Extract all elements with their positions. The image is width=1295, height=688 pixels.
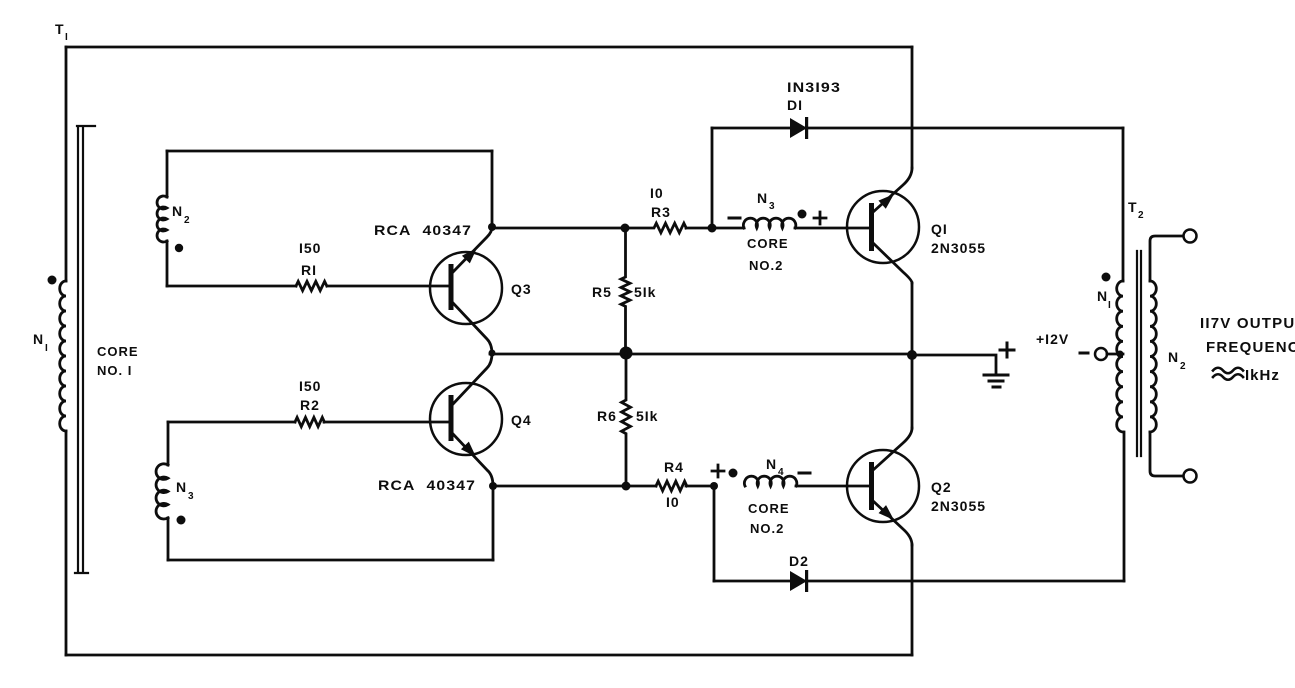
label R4 10 — [664, 459, 684, 510]
label Q3 — [511, 281, 532, 297]
svg-text:CORE: CORE — [748, 501, 790, 516]
resistor R3 — [625, 223, 712, 233]
svg-text:QI: QI — [931, 221, 948, 237]
wire Q2 emitter vertical to bottom rail — [911, 545, 914, 655]
junction node R3 right / D1 — [708, 224, 717, 233]
svg-text:CORE: CORE — [747, 236, 789, 251]
wire N2 loop left vertical — [166, 151, 169, 197]
svg-text:N: N — [176, 479, 187, 495]
label D2 — [789, 553, 809, 569]
svg-text:5Ik: 5Ik — [634, 284, 656, 300]
wire N3 loop bottom — [168, 559, 493, 562]
wire Q3 base line left part — [167, 285, 296, 288]
sign plus (N4 left) — [712, 465, 724, 477]
resistor R4 — [656, 481, 714, 491]
N4 polarity dot — [729, 469, 738, 478]
sign plus (ground) — [1000, 343, 1014, 357]
resistor R6 — [622, 353, 631, 486]
transformer T1 winding N1 — [60, 281, 66, 431]
wire bottom rail — [66, 654, 912, 657]
svg-text:I: I — [1108, 300, 1111, 311]
label +12V — [1036, 331, 1069, 347]
wire N3 feedback loop top (Q4 base line) — [168, 421, 295, 424]
label N3 core2 — [757, 190, 775, 212]
junction node Q4 emitter — [489, 482, 497, 490]
wire D1 branch vertical — [711, 128, 714, 228]
svg-text:Q2: Q2 — [931, 479, 952, 495]
svg-text:I: I — [65, 32, 68, 43]
svg-text:3: 3 — [769, 201, 775, 212]
svg-text:IN3I93: IN3I93 — [787, 79, 841, 95]
winding N4 core no.2 — [744, 476, 869, 486]
approx-equals waves — [1213, 368, 1243, 380]
svg-text:NO. I: NO. I — [97, 363, 132, 378]
wire D2 branch vertical — [713, 486, 716, 581]
resistor R5 — [621, 228, 630, 353]
svg-text:I: I — [45, 343, 48, 354]
svg-text:RCA 40347: RCA 40347 — [378, 477, 476, 493]
wire Q4 emitter node to R6 bottom — [493, 485, 656, 488]
svg-text:R6: R6 — [597, 408, 617, 424]
wire D2 line to T2 bottom — [714, 580, 1124, 583]
transistor Q4 — [430, 383, 502, 455]
transformer T2 winding N1 — [1117, 281, 1123, 432]
transistor Q2 — [847, 450, 919, 522]
svg-text:N: N — [757, 190, 768, 206]
wire R2 to Q4 base — [324, 421, 450, 424]
junction node Q3 emitter — [488, 223, 496, 231]
label N2 (T2) — [1168, 349, 1186, 372]
diode D2 — [790, 570, 808, 592]
svg-text:NO.2: NO.2 — [749, 258, 783, 273]
label 150 R1 — [299, 240, 321, 278]
winding N3 core no.2 — [712, 218, 869, 228]
svg-text:4: 4 — [778, 467, 784, 478]
resistor R2 — [295, 417, 324, 426]
resistor R1 — [296, 281, 327, 290]
svg-text:2: 2 — [184, 215, 190, 226]
svg-text:I50: I50 — [299, 378, 321, 394]
wire N2 loop left vertical lower — [166, 241, 169, 286]
transformer T2 core NO.2 lines — [1137, 251, 1141, 456]
winding N3 — [156, 464, 168, 519]
wire N2 feedback loop top — [167, 150, 492, 153]
label RCA 40347 (Q3) — [374, 222, 472, 238]
svg-text:CORE: CORE — [97, 344, 139, 359]
wire Q3 emitter node to R5 top — [492, 227, 625, 230]
svg-text:N: N — [172, 203, 183, 219]
transformer T2 winding N2 secondary — [1150, 281, 1156, 432]
svg-text:2N3055: 2N3055 — [931, 498, 986, 514]
wire terminal to T2 tap — [1107, 353, 1123, 356]
transformer T1 core NO.1 lines — [75, 126, 95, 573]
terminal supply — [1095, 348, 1107, 360]
wire secondary bottom lead — [1150, 432, 1183, 476]
wire Q2 collector vertical from ground node — [911, 355, 914, 428]
svg-text:FREQUENCY: FREQUENCY — [1206, 339, 1295, 356]
N3 polarity dot — [177, 516, 186, 525]
label CORE NO.2 (bottom) — [748, 501, 790, 536]
svg-text:DI: DI — [787, 97, 803, 113]
svg-text:I50: I50 — [299, 240, 321, 256]
label 1N3193 D1 — [787, 79, 841, 113]
sign minus (N3 core2 left) — [729, 217, 740, 220]
svg-text:I0: I0 — [650, 185, 664, 201]
label 10 R3 — [650, 185, 671, 220]
wire to ground — [912, 355, 996, 375]
svg-text:2N3055: 2N3055 — [931, 240, 986, 256]
svg-text:RI: RI — [301, 262, 317, 278]
label T1 — [55, 21, 68, 43]
wire N2 loop right vertical down to Q3 emitter node — [491, 151, 494, 227]
svg-text:Q3: Q3 — [511, 281, 532, 297]
label 150 R2 — [299, 378, 321, 413]
label R5 51k — [592, 284, 656, 300]
N3 core2 polarity dot — [798, 210, 807, 219]
svg-text:R4: R4 — [664, 459, 684, 475]
sign minus (N4 right) — [799, 472, 810, 475]
wire T2 primary bottom vertical — [1123, 432, 1126, 581]
label N1 (T2) — [1097, 288, 1111, 311]
label CORE NO.2 (top) — [747, 236, 789, 273]
wire N3 loop left vertical lower — [167, 518, 170, 560]
junction node R6 bottom — [622, 482, 631, 491]
transistor Q3 — [430, 252, 502, 324]
wire Q1 emitter vertical to top rail — [911, 47, 914, 168]
svg-text:N: N — [1097, 288, 1108, 304]
svg-text:T: T — [55, 21, 65, 37]
junction node R5 top — [621, 224, 630, 233]
N2 polarity dot — [175, 244, 183, 252]
svg-text:+I2V: +I2V — [1036, 331, 1069, 347]
svg-text:5Ik: 5Ik — [636, 408, 658, 424]
label N2 — [172, 203, 190, 226]
wire secondary top lead — [1150, 236, 1183, 281]
terminal output top — [1184, 230, 1197, 243]
wire center line collectors to ground — [490, 353, 912, 356]
junction node R4 right / D2 — [710, 482, 718, 490]
svg-text:T: T — [1128, 199, 1138, 215]
svg-text:2: 2 — [1180, 361, 1186, 372]
svg-text:R2: R2 — [300, 397, 320, 413]
label N1 — [33, 331, 48, 354]
label Q2 2N3055 — [931, 479, 986, 514]
wire T1 primary left vertical top section — [65, 47, 68, 281]
label output — [1200, 315, 1295, 384]
transistor Q1 — [847, 191, 919, 263]
label T2 — [1128, 199, 1144, 221]
terminal output bottom — [1184, 470, 1197, 483]
label Q4 — [511, 412, 532, 428]
junction node center big — [620, 347, 633, 360]
junction node T2 center tap — [1117, 351, 1124, 358]
junction node ground — [907, 350, 917, 360]
T1 polarity dot — [48, 276, 57, 285]
ground — [984, 375, 1008, 387]
svg-text:N: N — [33, 331, 44, 347]
label N4 — [766, 456, 784, 478]
wire N3 loop left vertical — [167, 422, 170, 465]
svg-text:2: 2 — [1138, 210, 1144, 221]
wire D1 line to T2 top — [712, 127, 1123, 130]
svg-text:II7V OUTPUT: II7V OUTPUT — [1200, 315, 1295, 332]
svg-text:R3: R3 — [651, 204, 671, 220]
wire T2 primary top vertical — [1122, 128, 1125, 281]
svg-text:Q4: Q4 — [511, 412, 532, 428]
sign minus (supply) — [1080, 352, 1088, 355]
sign plus (N3 core2 right) — [814, 212, 826, 224]
svg-text:N: N — [766, 456, 777, 472]
label RCA 40347 (Q4) — [378, 477, 476, 493]
wire Q1 collector vertical to ground node — [911, 283, 914, 355]
label R6 51k — [597, 408, 658, 424]
label Q1 2N3055 — [931, 221, 986, 256]
svg-text:RCA 40347: RCA 40347 — [374, 222, 472, 238]
wire R1 to Q3 base — [327, 285, 450, 288]
svg-text:I0: I0 — [666, 494, 680, 510]
label CORE NO.1 — [97, 344, 139, 378]
svg-text:D2: D2 — [789, 553, 809, 569]
label N3 — [176, 479, 194, 502]
svg-text:3: 3 — [188, 491, 194, 502]
svg-text:N: N — [1168, 349, 1179, 365]
wire top rail from T1 to Q1 emitter branch — [66, 46, 912, 49]
junction node collectors — [489, 350, 496, 357]
svg-text:R5: R5 — [592, 284, 612, 300]
svg-text:IkHz: IkHz — [1245, 367, 1280, 384]
wire N3 loop right vertical up to Q4 emitter node — [492, 486, 495, 560]
wire T1 left vertical bottom section — [65, 431, 68, 655]
winding N2 — [157, 196, 167, 242]
svg-text:NO.2: NO.2 — [750, 521, 784, 536]
T2 polarity dot — [1102, 273, 1111, 282]
diode D1 — [790, 117, 808, 139]
